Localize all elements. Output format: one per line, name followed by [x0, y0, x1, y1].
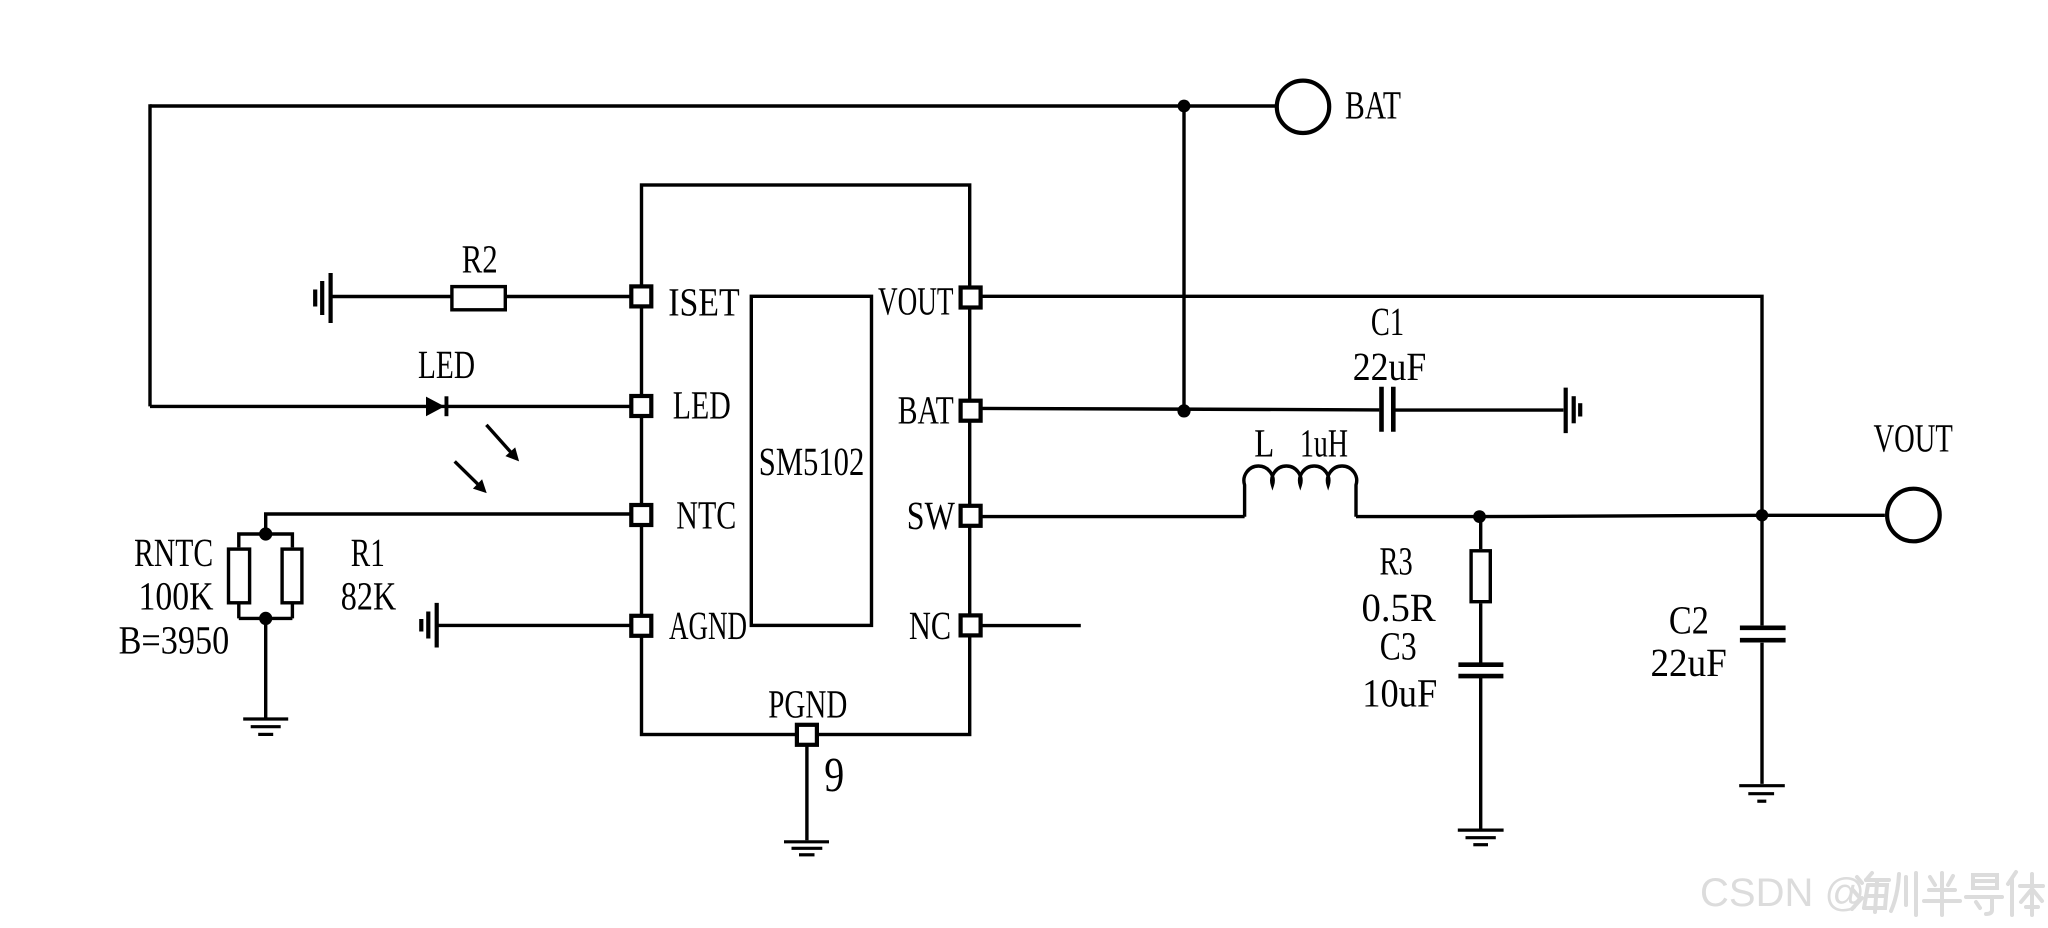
svg-text:C1: C1 — [1371, 299, 1404, 344]
wire junction to R3 — [1479, 517, 1482, 550]
svg-text:VOUT: VOUT — [878, 279, 954, 324]
svg-text:VOUT: VOUT — [1874, 416, 1953, 461]
svg-text:82K: 82K — [341, 574, 396, 619]
svg-text:CSDN @: CSDN @ — [1700, 871, 1865, 915]
svg-text:100K: 100K — [139, 573, 214, 618]
svg-text:1uH: 1uH — [1300, 421, 1348, 466]
capacitor C1 — [1382, 387, 1394, 432]
svg-text:R3: R3 — [1380, 539, 1413, 584]
diode LED — [426, 396, 448, 416]
wire C3 to ground — [1479, 678, 1482, 829]
svg-text:B=3950: B=3950 — [119, 617, 230, 662]
wire left vertical — [148, 104, 151, 406]
svg-text:9: 9 — [824, 747, 844, 802]
ground below C2 — [1739, 786, 1785, 802]
pin NTC square — [631, 505, 651, 525]
wire inductor to VOUT terminal — [1356, 515, 1885, 516]
capacitor C3 — [1458, 665, 1503, 676]
watermark char 川 — [1891, 873, 1916, 915]
wire LED line — [150, 405, 630, 408]
pin VOUT square — [961, 288, 981, 308]
pin NC square — [961, 615, 981, 635]
svg-text:BAT: BAT — [898, 388, 954, 433]
svg-text:22uF: 22uF — [1651, 640, 1727, 685]
wire top BAT rail — [150, 104, 1275, 107]
node junction at C2 — [1756, 509, 1768, 521]
ground for R2 (left-pointing) — [315, 273, 330, 323]
ground below PGND — [784, 842, 829, 855]
pin AGND square — [631, 616, 651, 636]
watermark char 海 — [1852, 873, 1889, 912]
watermark char 体 — [2008, 872, 2043, 915]
svg-text:22uF: 22uF — [1353, 344, 1427, 389]
svg-text:PGND: PGND — [768, 681, 847, 726]
svg-text:R2: R2 — [462, 236, 498, 281]
node NTC top junction — [259, 527, 272, 540]
wire NC stub — [982, 624, 1081, 627]
svg-text:NTC: NTC — [676, 493, 736, 538]
svg-text:C2: C2 — [1669, 598, 1709, 643]
ground for AGND (left-pointing) — [421, 603, 436, 648]
svg-text:R1: R1 — [351, 530, 385, 575]
pin ISET square — [631, 286, 651, 306]
ground for C1 (right-pointing) — [1566, 388, 1581, 434]
watermark char 导 — [1966, 875, 2002, 914]
wire ISET — [331, 295, 630, 298]
wire bottom bracket of RNTC/R1 — [239, 605, 293, 619]
svg-text:10uF: 10uF — [1362, 671, 1437, 716]
inductor L 1uH — [1244, 466, 1357, 517]
wire AGND — [437, 624, 630, 627]
wire PGND to ground — [805, 746, 808, 840]
resistor R3 — [1471, 551, 1490, 602]
node NTC bottom junction — [259, 612, 272, 625]
svg-text:L: L — [1254, 421, 1274, 466]
wire NTC — [266, 514, 630, 534]
ground below RNTC — [243, 719, 288, 734]
pin LED square — [631, 396, 651, 416]
wire C2 to ground — [1760, 643, 1763, 784]
IC inner rectangle — [751, 296, 871, 625]
svg-text:LED: LED — [418, 342, 475, 387]
wire C2 branch — [1760, 515, 1763, 625]
wire C1 to ground — [1395, 408, 1563, 411]
svg-text:SM5102: SM5102 — [759, 439, 865, 484]
wire vertical from top rail to BAT pin line — [1182, 106, 1185, 411]
wire BAT pin to C1 — [982, 408, 1379, 410]
node junction BAT line — [1177, 404, 1190, 417]
pin SW square — [961, 506, 981, 526]
svg-text:SW: SW — [907, 493, 955, 538]
resistor R1 — [282, 549, 302, 603]
node junction at R3 — [1473, 510, 1486, 523]
svg-text:AGND: AGND — [669, 603, 747, 648]
node junction top at x=1184 — [1178, 100, 1191, 113]
capacitor C2 — [1740, 628, 1786, 640]
pin PGND square — [797, 725, 817, 745]
wire SW to inductor — [982, 515, 1245, 518]
svg-text:RNTC: RNTC — [134, 530, 213, 575]
svg-text:ISET: ISET — [668, 280, 740, 325]
ground below C3 — [1458, 830, 1504, 845]
svg-text:NC: NC — [909, 603, 951, 648]
watermark char 半 — [1924, 873, 1960, 915]
resistor R2 — [452, 287, 505, 310]
terminal BAT circle — [1277, 81, 1329, 133]
svg-text:C3: C3 — [1380, 624, 1417, 669]
svg-text:LED: LED — [673, 383, 731, 428]
pin BAT square — [961, 401, 981, 421]
wire RNTC to ground — [264, 618, 267, 718]
wire top bracket of RNTC/R1 — [239, 532, 293, 547]
wire VOUT net top — [982, 296, 1762, 515]
LED light arrow 2 — [455, 461, 487, 493]
svg-text:BAT: BAT — [1345, 83, 1401, 128]
LED light arrow 1 — [486, 425, 519, 462]
op-amp U1 IC SM5102 outer box — [642, 185, 970, 735]
resistor RNTC — [229, 549, 250, 603]
wire R3 to C3 — [1479, 603, 1482, 662]
terminal VOUT circle — [1887, 489, 1940, 542]
